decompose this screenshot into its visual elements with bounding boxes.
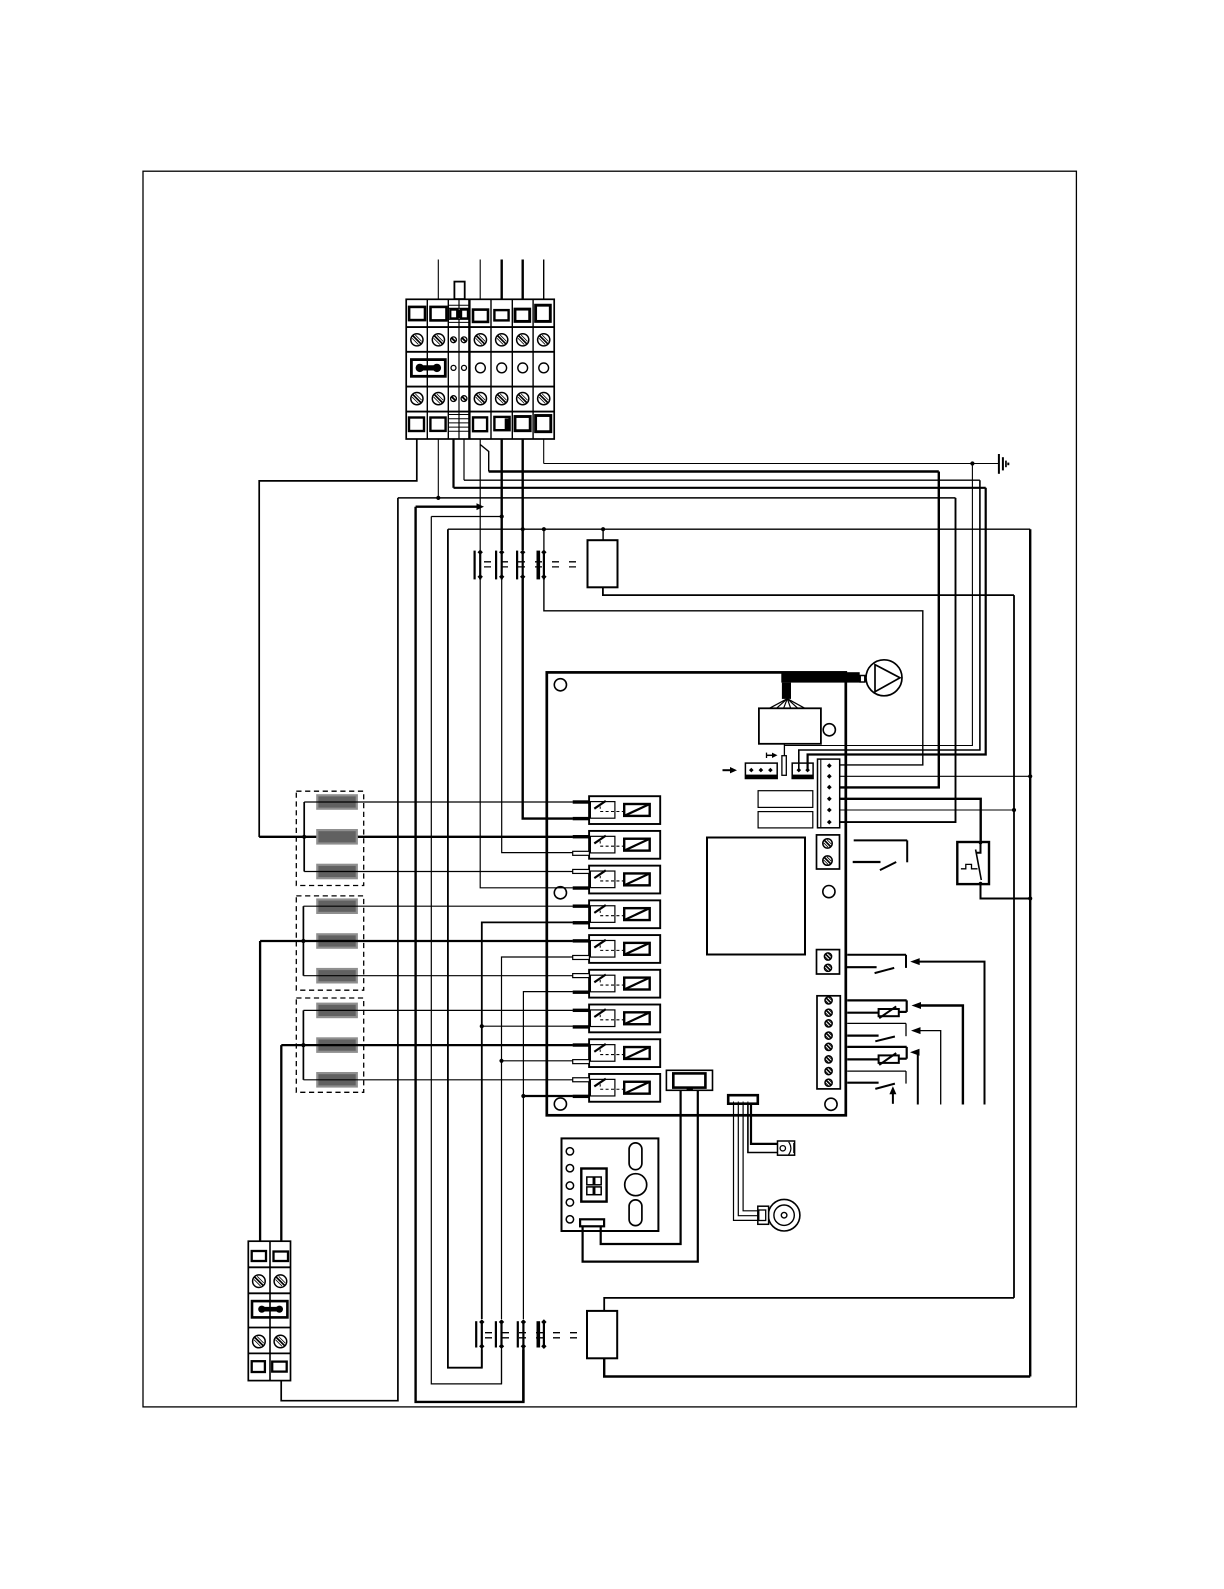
connector J4 display (666, 1070, 712, 1090)
terminal X4 2-pole (817, 950, 840, 974)
X2 upper screws (253, 1275, 266, 1288)
wire N to connector pin6 (840, 498, 956, 822)
arrow wire to S2 (918, 962, 985, 1105)
relay RL8 (589, 1039, 660, 1067)
PCB mounting hole bottom-right (825, 1098, 837, 1110)
X2 top clamp squares (252, 1251, 266, 1261)
X1 col3 bottom detail stripes (448, 414, 469, 416)
terminal block X1 outline (406, 299, 554, 439)
heater group 1 enclosure (296, 791, 363, 885)
wire N bus left vertical to X2 (281, 498, 398, 1401)
display button up (629, 1143, 642, 1170)
node K1 coil top (601, 527, 605, 531)
X1 lower screw terminals (411, 393, 423, 405)
wire pin2 to coil bus (840, 775, 1030, 777)
relay RL4 (589, 900, 660, 928)
wire col6 to contactor K1 (522, 439, 524, 550)
thermistor R2 (flow sensor) (847, 1046, 907, 1048)
connector J3 pins (827, 763, 832, 768)
relay RL1 (589, 796, 660, 824)
relay RL9 (589, 1074, 660, 1102)
wire col3b down (463, 439, 465, 480)
arrow into J1 (723, 769, 731, 771)
wire col1 to heater group 1 feed (259, 439, 417, 837)
display knob (625, 1174, 647, 1196)
wire L2 bus down to pin3 (840, 472, 939, 788)
label sticker 1 (758, 791, 813, 808)
connector J5 sensor ribbon (728, 1095, 758, 1104)
pressure switch S5 box (957, 842, 989, 884)
clip sensor B1 (778, 1141, 795, 1155)
wire col7 earth east (543, 439, 545, 464)
X1 col3 double-level top detail (448, 304, 469, 306)
pump connector (860, 676, 865, 683)
X1 col4-7 bottom clamp squares (473, 417, 487, 431)
PCB mounting hole bottom-left (554, 1098, 566, 1110)
wire element E6 to relay RL6 (303, 975, 573, 977)
PCB mounting hole top-left (554, 679, 566, 691)
contactor K2 pair 3 (517, 1321, 519, 1347)
wire L2 east thick (489, 470, 939, 472)
node RL8 tap (499, 1059, 503, 1063)
node pressure switch on coil bus (1028, 896, 1032, 900)
wire heater bus to relay RL2 (259, 836, 573, 838)
wire K2 pair1 bottom (481, 1348, 483, 1368)
wire col3b bus down to 2pin connector (799, 480, 980, 769)
wire col5 to contactor K1 (501, 439, 503, 550)
wire K1 pair2 bottom to relay RL2 (502, 578, 573, 853)
contactor K1 coil (588, 540, 618, 587)
terminal X5 8-pole (817, 996, 840, 1089)
switch S4 (flow switch) (847, 1070, 906, 1072)
wire coil bus down right (1029, 529, 1031, 1376)
node pin2 on coil bus (1028, 774, 1032, 778)
wire RL6 pin2 to contactor K2 pair3 (523, 992, 573, 1319)
wire RL8 pin2 (502, 1060, 573, 1062)
wire col3b east (464, 479, 980, 481)
wire group 3 feed down to X2 col2 (280, 1045, 282, 1241)
wire in col5 (501, 260, 503, 300)
wire K2 pair2 bottom (501, 1348, 503, 1384)
transformer T1 (759, 708, 821, 744)
heating element E2 (317, 830, 357, 843)
wire group 2 feed down to X2 col1 (259, 941, 261, 1241)
wire K2 coil top to return bus (604, 1298, 1014, 1311)
heater group 3 enclosure (296, 998, 363, 1092)
X1 test sockets (451, 365, 456, 370)
heating element E1 (317, 795, 357, 808)
node RL9 tap (521, 1094, 525, 1098)
X1 upper screw terminals (411, 334, 423, 346)
heating element E8 (317, 1038, 357, 1051)
contactor K1 linkage dashes (484, 561, 585, 563)
transformer lead fan (769, 699, 787, 709)
wire group 2 feed to relay RL5 (260, 940, 573, 942)
heater group 2 enclosure (296, 896, 363, 990)
display cable connector (580, 1219, 604, 1226)
wire RL5 pin2 to contactor K2 pair2 (502, 957, 573, 1319)
wire K2 coil bottom to coil bus (604, 1358, 1030, 1376)
node heater group 2 feed (301, 939, 305, 943)
heating element E3 (317, 865, 357, 878)
fuse F2 (782, 756, 786, 776)
connector J2 2-pin (792, 763, 813, 778)
arrow wire to R1 (919, 1006, 963, 1105)
wire in col4 (479, 260, 481, 300)
wire K1 pair1 bottom to relay RL3 (480, 578, 573, 888)
wire K1 coil top (602, 529, 604, 540)
round sensor B2 terminal (758, 1206, 769, 1224)
wire K2 pair3 bottom (522, 1348, 524, 1402)
wire RL9 pin2 (523, 1095, 573, 1097)
wire K1 coil bottom east (603, 587, 1014, 595)
wire S5 bottom to coil bus (981, 884, 1031, 899)
wire sensor lead 4 (748, 1104, 778, 1153)
terminal block X2 outline (248, 1241, 290, 1380)
relay RL2 (589, 831, 660, 859)
ground PE symbol (998, 454, 1000, 474)
node col5 tap (500, 514, 504, 518)
switch S3 (847, 1022, 906, 1024)
PCB mounting hole mid-right (823, 886, 835, 898)
wire col4 jog branch (480, 445, 489, 472)
relay RL6 (589, 970, 660, 998)
node col2 junction (436, 496, 440, 500)
wire element E1 to relay RL1 (304, 801, 573, 803)
arrow marker at fuse (767, 754, 773, 756)
contactor K2 linkage dashes (485, 1332, 585, 1334)
label sticker 2 (758, 812, 813, 828)
wire K1 pair4 feed (543, 529, 545, 550)
contactor K2 pair 1 (475, 1321, 477, 1347)
X2 bottom clamp squares (252, 1361, 265, 1372)
switch S2 (room thermostat) (847, 954, 906, 956)
wire col3a east (454, 487, 986, 489)
X1 col1-2 top clamp squares (409, 307, 425, 320)
relay RL7 (589, 1005, 660, 1033)
wire K1 pair4 aux to connector pin1 (544, 578, 923, 765)
node col6 tap (521, 527, 525, 531)
wire thick bus down to contactor K2 pair3 (416, 507, 524, 1402)
connector J3 7-pin header (818, 759, 840, 828)
wire col5 branch west (431, 516, 501, 518)
wire sensor lead 1 (734, 1104, 759, 1221)
heating element E7 (317, 1004, 357, 1017)
arrow wire to S3 (918, 1031, 941, 1105)
node heater group 3 feed (301, 1043, 305, 1047)
thermistor R1 (outdoor sensor) (847, 999, 907, 1001)
arrow up at S4 (892, 1093, 894, 1104)
wire col2 down (437, 439, 439, 498)
wire sensor lead 2 (738, 1104, 758, 1216)
contactor K1 pair 1 (474, 551, 476, 580)
microcontroller U1 (707, 838, 805, 955)
diamond K2 pair3 top (521, 1319, 526, 1324)
wire sensor lead 3 (743, 1104, 759, 1211)
wire element E9 to relay RL9 (303, 1079, 573, 1081)
wire group 3 feed to relay RL8 (281, 1044, 573, 1046)
connector J1 3-pin (745, 763, 777, 778)
wire col4 to contactor K1 (479, 439, 481, 550)
X1 col3 two-level feed tab (454, 282, 464, 300)
7-segment display 88 (581, 1169, 606, 1202)
display cable outer (583, 1090, 698, 1261)
contactor K1 pair 2 (495, 551, 497, 580)
switch S1 (limit thermostat) (854, 839, 908, 841)
wire RL4 pin2 to contactor K2 pair1 (482, 922, 573, 1319)
X1 col1-2 bottom clamp squares (409, 418, 424, 432)
node earth junction (970, 461, 974, 465)
diamond K2 pair2 top (499, 1319, 504, 1324)
relay RL5 (589, 935, 660, 963)
pump P1 (866, 660, 902, 696)
wire pin4 to pressure switch (840, 799, 981, 843)
diamond K2 pair1 top (479, 1319, 484, 1324)
display button down (629, 1200, 642, 1226)
heating element E6 (317, 969, 357, 982)
contactor K2 coil (587, 1311, 617, 1358)
pump feed heavy bar (781, 672, 859, 682)
heating element E5 (317, 934, 357, 947)
wire col3a down (452, 439, 454, 488)
X1 col4-7 top clamp squares (473, 310, 488, 322)
arrow wire to R2 (916, 1052, 918, 1104)
wire heater feed thick from col4 (416, 506, 477, 508)
node pin5 on return bus (1012, 808, 1016, 812)
contactor K2 pair 4 (536, 1321, 540, 1347)
arrow junction at col4 (477, 503, 485, 510)
wire earth line (544, 463, 999, 465)
PCB mounting hole top-right (823, 724, 835, 736)
wire coil return bus (1013, 595, 1015, 1298)
wire bus down to contactor K2 pair2 (431, 517, 501, 1384)
wire earth bus down to transformer (784, 464, 972, 746)
X2 lower screws (253, 1335, 266, 1348)
node K1 pair4 feed (542, 527, 546, 531)
wire N bus horizontal (398, 497, 956, 499)
pressure switch S5 pulse mark (961, 864, 978, 868)
wire sensor lead 5 (751, 1104, 778, 1144)
PCB mounting hole mid-left (554, 887, 566, 899)
contactor K1 pair 4 (536, 551, 540, 580)
relay RL3 (589, 866, 660, 894)
heating element E9 (317, 1073, 357, 1086)
wire element E3 to relay RL3 (304, 871, 573, 873)
wire L-in col2 (437, 260, 439, 300)
display board A2 (562, 1138, 659, 1231)
contactor K2 pair 2 (495, 1321, 497, 1347)
display cable inner (601, 1090, 681, 1244)
X1 fuse disconnect link (cols 1-2) (411, 360, 445, 377)
wire transformer pin to fuse F2 (783, 744, 785, 756)
pressure switch S5 contact (979, 841, 983, 845)
contactor K1 pair 3 (516, 551, 518, 580)
X2 fuse link (252, 1301, 287, 1317)
wire element E4 to relay RL4 (303, 905, 573, 907)
wire element E7 to relay RL7 (303, 1009, 573, 1011)
heating element E4 (317, 900, 357, 913)
node heater group 1 feed (302, 835, 306, 839)
wire pin5 to return bus (840, 809, 1014, 811)
wire in col7 (543, 260, 545, 300)
terminal X3 2-pole (817, 835, 840, 869)
node RL7 tap (480, 1024, 484, 1028)
wire in col6 (522, 260, 524, 300)
wire bus down to contactor K2 pair1 (448, 529, 482, 1367)
PCB board outline (547, 672, 846, 1115)
wire K1 pair3 bottom to relay RL1 (523, 578, 573, 819)
wire coil line east (448, 528, 1030, 530)
wire RL7 pin2 (482, 1025, 573, 1027)
wire col3a bus down to 2pin connector (808, 488, 986, 769)
round sensor B2 (768, 1199, 800, 1231)
